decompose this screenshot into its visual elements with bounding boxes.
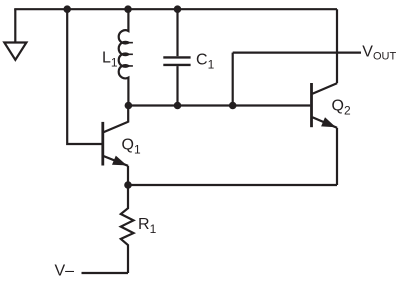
- svg-text:VOUT: VOUT: [362, 44, 396, 63]
- node top-left: [63, 5, 71, 13]
- wire emitter rail: [128, 184, 337, 186]
- svg-text:V–: V–: [55, 262, 75, 279]
- wire VOUT line: [233, 51, 361, 53]
- svg-text:R1: R1: [138, 216, 157, 236]
- inductor L1: [119, 9, 129, 105]
- ground: [4, 9, 26, 60]
- svg-text:C1: C1: [196, 52, 215, 72]
- node L1 top: [124, 5, 132, 13]
- node emitter: [124, 181, 132, 189]
- wire Q2 collector riser: [336, 9, 338, 83]
- resistor R1: [121, 185, 134, 273]
- transistor Q2: [312, 83, 338, 185]
- node L1 bottom: [125, 102, 133, 110]
- svg-text:Q2: Q2: [332, 98, 351, 118]
- wire tank bottom rail / Q2 base: [128, 104, 310, 106]
- wire to V-: [82, 272, 129, 274]
- wire left vertical to Q1 base: [67, 9, 101, 144]
- capacitor C1: [163, 9, 190, 105]
- node C1 bottom: [174, 102, 182, 110]
- node VOUT tap: [229, 102, 237, 110]
- node C1 top: [174, 5, 182, 13]
- wire VOUT tap: [232, 53, 234, 106]
- transistor Q1: [103, 106, 128, 186]
- wire top rail: [14, 8, 337, 10]
- svg-text:Q1: Q1: [122, 137, 141, 157]
- svg-text:L1: L1: [102, 50, 118, 70]
